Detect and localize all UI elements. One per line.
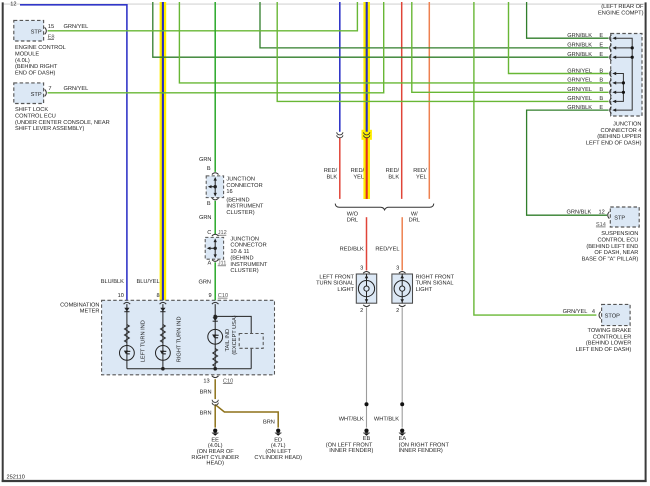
svg-text:YEL: YEL bbox=[353, 174, 364, 180]
svg-text:RED/: RED/ bbox=[324, 167, 338, 174]
wire BLU traced core to inline connector bbox=[366, 2, 368, 132]
svg-text:GRN/BLK: GRN/BLK bbox=[567, 32, 592, 39]
svg-text:GRN/BLK: GRN/BLK bbox=[567, 209, 592, 216]
wire RED/BLK into left front turn signal light bbox=[366, 217, 368, 270]
svg-text:E: E bbox=[599, 105, 603, 111]
wire GRN/BLK junction connector 4 pin E8 to suspension control ecu pin 12 bbox=[527, 110, 609, 215]
svg-text:16: 16 bbox=[226, 189, 232, 195]
wire GRN/BLK from top to junction connector 4 pin E3 bbox=[153, 2, 609, 57]
left front turn signal light box bbox=[356, 274, 376, 303]
svg-text:9: 9 bbox=[209, 293, 212, 299]
svg-text:INSTRUMENT: INSTRUMENT bbox=[230, 262, 268, 268]
wire RED/YEL into right front turn signal light bbox=[401, 217, 403, 270]
svg-text:RED/: RED/ bbox=[386, 167, 400, 174]
svg-text:B: B bbox=[599, 78, 603, 84]
svg-text:GRN/YEL: GRN/YEL bbox=[64, 85, 89, 92]
svg-text:WHT/BLK: WHT/BLK bbox=[339, 415, 364, 422]
svg-text:(BEHIND LOWER: (BEHIND LOWER bbox=[586, 340, 631, 347]
svg-text:STP: STP bbox=[31, 92, 42, 98]
wire trace highlight bulge at inline connector bbox=[362, 130, 372, 140]
engine control module pin 15 connector arc bbox=[45, 27, 47, 34]
wire BLU/YEL core to combination meter pin 8 bbox=[162, 2, 164, 300]
svg-text:DRL: DRL bbox=[347, 217, 358, 223]
right front turn signal light box bbox=[392, 274, 413, 303]
svg-text:STP: STP bbox=[614, 216, 625, 222]
wire WHT/BLK right front turn signal light pin 2 to ground EA bbox=[401, 308, 403, 428]
wire GRN/YEL from top to junction connector 4 pin B5 bbox=[179, 2, 608, 83]
junction connector 16 internal arrows bbox=[209, 178, 215, 195]
wire GRN/YEL from top to junction connector 4 pin B4 bbox=[509, 2, 609, 74]
svg-text:GRN/YEL: GRN/YEL bbox=[64, 23, 89, 30]
svg-text:RED/: RED/ bbox=[351, 167, 365, 174]
combination meter pin 9 arc bbox=[212, 302, 219, 304]
svg-text:LEFT END OF DASH): LEFT END OF DASH) bbox=[576, 346, 632, 353]
junction connector 10 & 11 box bbox=[205, 237, 223, 259]
svg-text:BRN: BRN bbox=[200, 410, 212, 416]
svg-text:ENGINE COMPT): ENGINE COMPT) bbox=[598, 10, 644, 17]
svg-text:MODULE: MODULE bbox=[15, 52, 39, 58]
svg-text:INSTRUMENT: INSTRUMENT bbox=[226, 204, 264, 210]
svg-text:12: 12 bbox=[599, 210, 605, 216]
svg-text:(BEHIND RIGHT: (BEHIND RIGHT bbox=[15, 63, 58, 70]
combination meter pin 8 arc bbox=[160, 302, 167, 304]
svg-text:BASE OF "A" PILLAR): BASE OF "A" PILLAR) bbox=[582, 255, 639, 262]
combination meter pin 10 arc bbox=[124, 302, 131, 304]
svg-text:GRN/YEL: GRN/YEL bbox=[567, 67, 592, 74]
wire RED/YEL trace highlight (right column) bbox=[363, 2, 370, 199]
svg-text:(BEHIND: (BEHIND bbox=[230, 255, 253, 262]
svg-text:12: 12 bbox=[10, 2, 16, 8]
svg-text:2: 2 bbox=[360, 308, 363, 314]
shift lock control ecu pin 7 connector arc bbox=[45, 89, 47, 96]
svg-text:LIGHT: LIGHT bbox=[337, 287, 354, 293]
wire GRN/YEL from top to junction connector 4 pin B7 bbox=[277, 2, 608, 101]
wire BRN combination meter pin 13 to inline connector bbox=[214, 379, 216, 399]
svg-text:CONTROL ECU: CONTROL ECU bbox=[15, 114, 56, 120]
svg-text:JUNCTION: JUNCTION bbox=[230, 236, 259, 242]
combination meter tail ind branch bbox=[127, 304, 251, 369]
svg-text:(LEFT REAR OF: (LEFT REAR OF bbox=[601, 3, 644, 10]
svg-text:(EXCEPT USA): (EXCEPT USA) bbox=[231, 315, 238, 355]
wire GRN/YEL from top to junction connector 4 pin B6 bbox=[412, 2, 609, 92]
svg-text:LEFT END OF DASH): LEFT END OF DASH) bbox=[586, 139, 642, 146]
svg-text:C: C bbox=[207, 230, 211, 236]
svg-text:10: 10 bbox=[118, 293, 124, 299]
svg-text:GRN/YEL: GRN/YEL bbox=[567, 77, 592, 84]
suspension control ecu STP box bbox=[610, 207, 639, 227]
svg-text:RIGHT TURN IND: RIGHT TURN IND bbox=[177, 316, 183, 362]
svg-text:CYLINDER HEAD): CYLINDER HEAD) bbox=[254, 454, 302, 461]
svg-text:(BEHIND LEFT END: (BEHIND LEFT END bbox=[586, 243, 638, 250]
wire WHT/BLK left front turn signal light pin 2 to ground EB bbox=[366, 308, 368, 428]
svg-text:LIGHT: LIGHT bbox=[416, 287, 433, 293]
svg-text:CLUSTER): CLUSTER) bbox=[230, 267, 258, 274]
svg-text:CONNECTOR 4: CONNECTOR 4 bbox=[601, 128, 642, 134]
inline connector on traced RED/YEL wire bbox=[364, 132, 370, 135]
junction connector 10 & 11 bottom pin arc bbox=[212, 260, 219, 262]
svg-text:E: E bbox=[599, 33, 603, 39]
junction connector 4 internal bus B pins bbox=[616, 74, 624, 102]
svg-text:GRN/YEL: GRN/YEL bbox=[567, 95, 592, 102]
ground EA bbox=[399, 429, 406, 436]
svg-text:TAIL IND: TAIL IND bbox=[225, 329, 231, 352]
svg-text:GRN: GRN bbox=[199, 157, 212, 163]
svg-text:(4.0L): (4.0L) bbox=[15, 57, 30, 64]
svg-text:GRN: GRN bbox=[199, 215, 212, 221]
svg-text:BLU/BLK: BLU/BLK bbox=[101, 278, 124, 285]
splice dot on WHT/BLK right bbox=[400, 402, 404, 406]
svg-text:B: B bbox=[207, 166, 211, 172]
wire BRN inline connector to ground EE bbox=[214, 405, 216, 428]
svg-text:A: A bbox=[208, 261, 212, 267]
shift lock control ecu STP box bbox=[14, 83, 44, 104]
svg-text:END OF DASH): END OF DASH) bbox=[15, 69, 56, 76]
svg-text:15: 15 bbox=[48, 24, 54, 30]
junction connector 16 top pin arc bbox=[212, 173, 219, 175]
svg-text:252110: 252110 bbox=[7, 475, 25, 481]
svg-text:BRN: BRN bbox=[263, 420, 275, 426]
svg-text:CONTROL ECU: CONTROL ECU bbox=[597, 238, 638, 244]
wire GRN/BLK from top to junction connector 4 pin E1 bbox=[527, 2, 609, 38]
svg-text:CLUSTER): CLUSTER) bbox=[226, 209, 254, 216]
svg-text:SHIFT LEVER ASSEMBLY): SHIFT LEVER ASSEMBLY) bbox=[15, 125, 85, 132]
svg-text:LEFT FRONT: LEFT FRONT bbox=[319, 274, 354, 280]
wire GRN/YEL from top to towing brake controller pin 4 bbox=[474, 2, 597, 315]
junction connector 4 box bbox=[611, 34, 642, 117]
svg-text:B: B bbox=[599, 68, 603, 74]
svg-text:SUSPENSION: SUSPENSION bbox=[601, 231, 638, 237]
junction connector 10 & 11 internal arrows bbox=[208, 240, 215, 257]
svg-text:SHIFT LOCK: SHIFT LOCK bbox=[15, 107, 48, 113]
svg-text:RED/: RED/ bbox=[413, 167, 427, 174]
inline connector on BRN wire below combination meter bbox=[212, 400, 218, 403]
suspension control ecu pin 12 connector arc bbox=[608, 212, 610, 219]
svg-text:INNER FENDER): INNER FENDER) bbox=[399, 447, 443, 454]
svg-text:GRN/BLK: GRN/BLK bbox=[567, 104, 592, 111]
svg-text:4: 4 bbox=[592, 309, 595, 315]
svg-text:RED/BLK: RED/BLK bbox=[340, 245, 364, 252]
svg-text:ENGINE CONTROL: ENGINE CONTROL bbox=[15, 45, 66, 51]
wire GRN junction connector 16 to junction connector 10 & 11 bbox=[214, 201, 216, 235]
brace grouping W/O DRL and W/ DRL wires bbox=[335, 204, 434, 210]
inline connector on left RED/BLK wire bbox=[337, 132, 343, 135]
svg-text:GRN/BLK: GRN/BLK bbox=[567, 42, 592, 49]
svg-text:STOP: STOP bbox=[605, 313, 620, 319]
svg-text:B: B bbox=[599, 96, 603, 102]
svg-text:RED/YEL: RED/YEL bbox=[375, 245, 399, 252]
wire BLU 12 from top-left to combination meter pin 10 bbox=[20, 5, 127, 301]
splice dot on WHT/BLK left bbox=[365, 402, 369, 406]
svg-text:BRN: BRN bbox=[200, 389, 212, 395]
svg-text:LEFT TURN IND: LEFT TURN IND bbox=[140, 320, 146, 362]
svg-text:JUNCTION: JUNCTION bbox=[226, 177, 255, 183]
junction connector 10 & 11 top pin arc bbox=[212, 234, 219, 236]
svg-text:INNER FENDER): INNER FENDER) bbox=[329, 447, 373, 454]
svg-text:TURN SIGNAL: TURN SIGNAL bbox=[416, 281, 454, 287]
svg-text:METER: METER bbox=[80, 309, 100, 315]
ground EB bbox=[363, 429, 370, 436]
svg-text:BLK: BLK bbox=[388, 174, 399, 180]
svg-text:TOWING BRAKE: TOWING BRAKE bbox=[588, 328, 632, 334]
combination meter left turn ind branch bbox=[120, 304, 135, 369]
svg-text:BLK: BLK bbox=[327, 174, 338, 180]
svg-text:GRN: GRN bbox=[198, 280, 211, 286]
svg-text:CONTROLLER: CONTROLLER bbox=[593, 334, 632, 340]
svg-text:B: B bbox=[599, 87, 603, 93]
svg-text:3: 3 bbox=[360, 265, 363, 271]
svg-text:WHT/BLK: WHT/BLK bbox=[374, 415, 399, 422]
combination meter tail ind resistor sub-box bbox=[239, 334, 263, 349]
svg-text:EA: EA bbox=[399, 436, 407, 442]
svg-text:(UNDER CENTER CONSOLE, NEAR: (UNDER CENTER CONSOLE, NEAR bbox=[15, 119, 110, 126]
svg-text:8: 8 bbox=[157, 293, 160, 299]
svg-text:HEAD): HEAD) bbox=[206, 460, 224, 467]
svg-text:10 & 11: 10 & 11 bbox=[230, 249, 249, 255]
wire GRN/YEL shift lock control ecu pin 7 up at x384 bbox=[48, 2, 384, 93]
svg-text:DRL: DRL bbox=[409, 217, 420, 223]
svg-text:GRN/YEL: GRN/YEL bbox=[563, 308, 588, 315]
svg-text:E: E bbox=[599, 43, 603, 49]
ground EE bbox=[212, 429, 219, 436]
wire GRN/YEL engine control module pin 15 up at x357 bbox=[48, 2, 358, 31]
svg-text:OF DASH, NEAR: OF DASH, NEAR bbox=[594, 250, 638, 256]
svg-text:(BEHIND: (BEHIND bbox=[226, 196, 249, 203]
svg-text:TURN SIGNAL: TURN SIGNAL bbox=[316, 281, 354, 287]
svg-text:2: 2 bbox=[396, 308, 399, 314]
svg-text:CONNECTOR: CONNECTOR bbox=[226, 183, 262, 189]
junction connector 4 internal bus E pins bbox=[616, 38, 632, 110]
svg-text:(BEHIND UPPER: (BEHIND UPPER bbox=[597, 133, 641, 140]
wire GRN from top to junction connector 16 bbox=[214, 2, 216, 172]
svg-text:3: 3 bbox=[396, 265, 399, 271]
junction connector 4 pin arcs and arrows bbox=[610, 35, 612, 114]
combination meter pin 13 arc bbox=[212, 376, 219, 378]
svg-text:E: E bbox=[599, 52, 603, 58]
junction connector 16 box bbox=[206, 176, 223, 198]
ground ED bbox=[275, 429, 282, 436]
svg-text:STP: STP bbox=[31, 30, 42, 36]
svg-text:CONNECTOR: CONNECTOR bbox=[230, 243, 266, 249]
wire BRN branch to ground ED bbox=[215, 405, 278, 428]
wire RED/YEL traced core below inline connector to brace bbox=[366, 137, 368, 199]
combination meter box bbox=[102, 300, 275, 375]
wire RED/BLK below inline connector to brace bbox=[339, 137, 341, 199]
wire BLU/YEL trace highlight (combination meter branch) bbox=[160, 2, 167, 300]
engine control module STP box bbox=[14, 20, 44, 41]
wire GRN/BLK from top to junction connector 4 pin E2 bbox=[260, 2, 609, 48]
wire BLU to inline connector (left front light W/O DRL) bbox=[339, 2, 341, 132]
svg-text:7: 7 bbox=[48, 86, 51, 92]
wire RED/YEL (W/ DRL) to brace bbox=[428, 2, 430, 199]
svg-text:EB: EB bbox=[363, 436, 371, 442]
combination meter right turn ind branch bbox=[156, 304, 171, 369]
wire GRN junction connector 10 & 11 to combination meter pin 9 bbox=[214, 262, 216, 300]
towing brake controller STOP box bbox=[602, 304, 631, 325]
towing brake controller pin 4 connector arc bbox=[599, 312, 601, 319]
svg-text:YEL: YEL bbox=[416, 174, 427, 180]
wire RED/BLK (W/ DRL) to brace bbox=[401, 2, 403, 199]
junction connector 16 bottom pin arc bbox=[212, 198, 219, 200]
svg-text:GRN/BLK: GRN/BLK bbox=[567, 51, 592, 58]
svg-text:13: 13 bbox=[203, 378, 209, 384]
svg-text:B: B bbox=[207, 201, 211, 207]
svg-text:JUNCTION: JUNCTION bbox=[613, 122, 642, 128]
svg-text:GRN/YEL: GRN/YEL bbox=[567, 86, 592, 93]
svg-text:COMBINATION: COMBINATION bbox=[60, 302, 99, 308]
svg-text:BLU/YEL: BLU/YEL bbox=[136, 278, 159, 285]
svg-text:RIGHT FRONT: RIGHT FRONT bbox=[416, 274, 455, 280]
